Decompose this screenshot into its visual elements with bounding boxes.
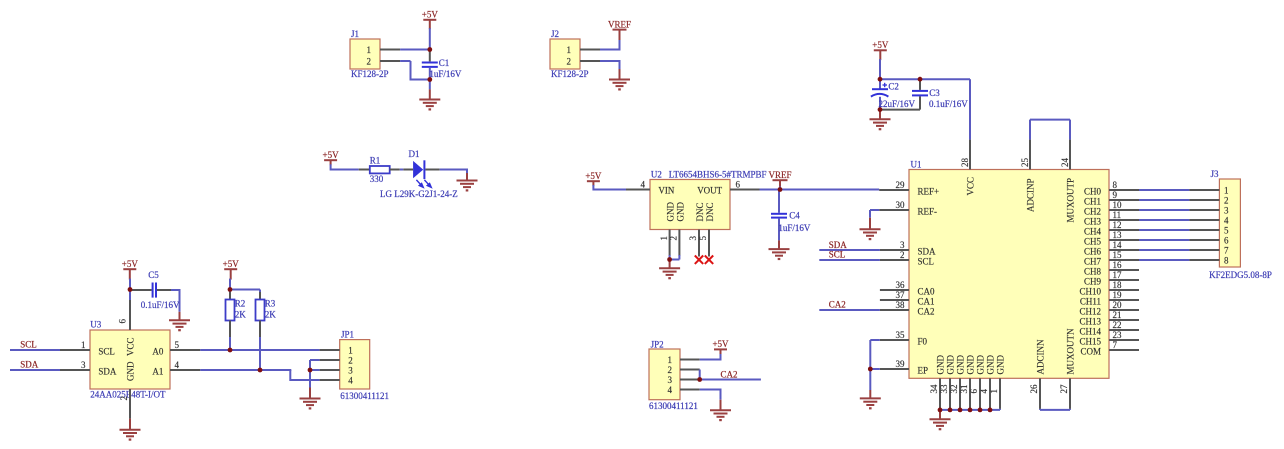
svg-text:8: 8 xyxy=(1113,180,1118,190)
wire xyxy=(779,187,781,190)
ground (D1) xyxy=(457,173,478,190)
svg-text:1: 1 xyxy=(367,45,372,55)
wire xyxy=(229,337,231,350)
svg-text:CH3: CH3 xyxy=(1084,216,1102,226)
svg-text:GND: GND xyxy=(936,355,946,375)
wire xyxy=(429,28,431,49)
wire CA2 net xyxy=(700,379,761,381)
pin 34 of U1 (GND) xyxy=(929,355,945,409)
pin 11 of U1 (CH3) xyxy=(1084,210,1139,226)
svg-text:3: 3 xyxy=(900,240,905,250)
pin 39 of U1 (EP) xyxy=(880,359,928,375)
svg-text:LG L29K-G2J1-24-Z: LG L29K-G2J1-24-Z xyxy=(380,189,458,199)
wire xyxy=(129,290,131,302)
pin 1 of J3 xyxy=(1189,189,1219,191)
wire xyxy=(1139,189,1189,191)
capacitor C2 (polarized) xyxy=(871,79,916,109)
pin 16 of U1 (CH8) xyxy=(1084,260,1139,276)
wire xyxy=(1139,219,1189,221)
node VREF junction xyxy=(778,187,783,192)
power +5V (JP2) xyxy=(712,339,729,355)
svg-text:SCL: SCL xyxy=(98,346,115,356)
svg-text:ADCINP: ADCINP xyxy=(1026,178,1036,212)
svg-text:1uF/16V: 1uF/16V xyxy=(429,69,462,79)
ground (C5) xyxy=(169,312,190,330)
wire xyxy=(230,290,260,294)
svg-text:EP: EP xyxy=(918,365,929,375)
svg-text:SDA: SDA xyxy=(918,246,937,256)
svg-text:22uF/16V: 22uF/16V xyxy=(879,99,916,109)
svg-text:34: 34 xyxy=(929,384,939,394)
wire xyxy=(593,185,626,191)
wire xyxy=(1139,209,1189,211)
node JP2 CA2 junction xyxy=(697,377,702,382)
svg-text:ADCINN: ADCINN xyxy=(1036,339,1046,374)
pin 9 of U1 (CH1) xyxy=(1084,190,1139,206)
svg-text:SDA: SDA xyxy=(829,240,848,250)
svg-text:1: 1 xyxy=(81,340,86,350)
svg-text:R3: R3 xyxy=(265,298,276,308)
wire A0 net xyxy=(200,349,319,351)
svg-text:VREF: VREF xyxy=(768,170,791,180)
svg-text:13: 13 xyxy=(1113,230,1123,240)
wire xyxy=(819,249,880,251)
IC U1 xyxy=(909,159,1109,378)
svg-text:+5V: +5V xyxy=(323,150,340,160)
power +5V (R1) xyxy=(323,150,340,165)
svg-text:2: 2 xyxy=(668,365,673,375)
svg-text:3: 3 xyxy=(81,360,86,370)
svg-text:15: 15 xyxy=(1113,250,1123,260)
node R3 bottom junction xyxy=(258,368,263,373)
svg-text:VREF: VREF xyxy=(608,19,631,29)
svg-text:CA2: CA2 xyxy=(918,306,935,316)
capacitor C4 xyxy=(771,190,811,241)
pin 1 of J1 xyxy=(380,49,400,51)
svg-text:26: 26 xyxy=(1029,384,1039,394)
node R2 bottom junction xyxy=(228,348,233,353)
LED D1 xyxy=(380,149,458,199)
svg-text:6: 6 xyxy=(1224,236,1229,246)
svg-text:CH10: CH10 xyxy=(1079,286,1101,296)
wire xyxy=(400,61,431,81)
net label SCL xyxy=(829,250,846,260)
pin 38 of U1 (CA2) xyxy=(880,300,935,316)
pin 8 of U1 (CH0) xyxy=(1084,180,1139,196)
svg-text:CA2: CA2 xyxy=(721,370,738,380)
svg-text:6: 6 xyxy=(969,389,979,394)
svg-text:2K: 2K xyxy=(235,310,247,320)
svg-text:16: 16 xyxy=(1113,260,1123,270)
pin 26 of U1 (ADCINN) xyxy=(1029,339,1045,409)
svg-text:A0: A0 xyxy=(152,346,163,356)
svg-text:4: 4 xyxy=(1224,216,1229,226)
wire xyxy=(699,370,701,380)
capacitor C1 xyxy=(422,50,462,80)
pin 4 of U3 (A1) xyxy=(170,360,200,370)
svg-text:VOUT: VOUT xyxy=(697,186,722,196)
pin 17 of U1 (CH9) xyxy=(1084,270,1139,286)
svg-text:SCL: SCL xyxy=(20,340,37,350)
pin 36 of U1 (CA0) xyxy=(880,280,935,296)
node GND bus junction xyxy=(968,408,973,413)
svg-text:61300411121: 61300411121 xyxy=(340,391,389,401)
net label SDA xyxy=(20,360,39,370)
wire xyxy=(1139,229,1189,231)
svg-text:4: 4 xyxy=(641,180,646,190)
svg-text:SDA: SDA xyxy=(20,360,39,370)
svg-text:1: 1 xyxy=(659,236,669,241)
svg-text:12: 12 xyxy=(1113,220,1122,230)
svg-text:4: 4 xyxy=(668,385,673,395)
node F0/EP junction xyxy=(868,367,873,372)
svg-text:22: 22 xyxy=(1113,320,1122,330)
svg-text:19: 19 xyxy=(1113,290,1123,300)
pin 3 of J3 xyxy=(1189,209,1219,211)
svg-text:3: 3 xyxy=(668,375,673,385)
svg-text:VCC: VCC xyxy=(966,177,976,196)
wire xyxy=(600,61,621,70)
wire xyxy=(780,189,879,191)
no-connect X on pin 3 xyxy=(695,256,703,264)
node C2 bottom junction xyxy=(878,107,883,112)
svg-text:GND: GND xyxy=(676,202,686,222)
svg-text:39: 39 xyxy=(896,359,906,369)
pin 5 of J3 xyxy=(1189,229,1219,231)
svg-text:SCL: SCL xyxy=(829,250,846,260)
connector J3 xyxy=(1209,169,1272,280)
wire xyxy=(760,189,781,191)
pin 4 of JP2 xyxy=(680,389,700,391)
pin 4 of U2 (VIN) xyxy=(626,180,650,190)
svg-text:11: 11 xyxy=(1113,210,1122,220)
svg-text:J3: J3 xyxy=(1211,169,1220,179)
power +5V (J1/C1) xyxy=(422,10,439,30)
pin 4 of JP1 xyxy=(320,379,340,381)
net label SCL xyxy=(20,340,37,350)
wire xyxy=(1139,249,1189,251)
node C2 top junction xyxy=(878,77,883,82)
power +5V (R2/R3) xyxy=(223,259,240,280)
ground (EP) xyxy=(860,390,881,408)
svg-text:+5V: +5V xyxy=(585,171,602,181)
svg-text:A1: A1 xyxy=(152,366,163,376)
svg-text:R1: R1 xyxy=(370,156,381,166)
svg-text:GND: GND xyxy=(986,355,996,375)
pin 21 of U1 (CH13) xyxy=(1079,310,1139,326)
pin 18 of U1 (CH10) xyxy=(1079,280,1139,296)
svg-text:LT6654BHS6-5#TRMPBF: LT6654BHS6-5#TRMPBF xyxy=(669,169,767,179)
pin 4 of J3 xyxy=(1189,219,1219,221)
ground (J2) xyxy=(609,69,630,89)
pin 31 of U1 (GND) xyxy=(959,355,975,409)
svg-text:+5V: +5V xyxy=(712,339,729,349)
pin 22 of U1 (CH14) xyxy=(1079,320,1139,336)
pin 3 of U3 (SDA) xyxy=(60,360,90,370)
wire xyxy=(310,360,320,388)
svg-text:U1: U1 xyxy=(911,159,922,169)
svg-text:DNC: DNC xyxy=(695,202,705,221)
pin 6 of U3 (VCC) xyxy=(118,300,131,330)
ground (REF-) xyxy=(860,218,881,239)
wire xyxy=(1139,239,1189,241)
svg-text:24: 24 xyxy=(1060,158,1070,168)
svg-text:GND: GND xyxy=(126,361,136,381)
wire xyxy=(10,349,60,351)
svg-text:3: 3 xyxy=(348,366,353,376)
wire xyxy=(429,80,431,90)
svg-text:MUXOUTP: MUXOUTP xyxy=(1066,178,1076,223)
pin 2 of U2 (GND) xyxy=(669,230,680,257)
svg-text:3: 3 xyxy=(1224,206,1229,216)
svg-text:20: 20 xyxy=(1113,300,1123,310)
node JP1 ground junction xyxy=(308,368,313,373)
svg-text:+5V: +5V xyxy=(422,10,439,20)
node J1-pin1 junction xyxy=(427,47,432,52)
pin 29 of U1 (REF+) xyxy=(879,180,939,196)
svg-text:29: 29 xyxy=(896,180,906,190)
pin 7 of U1 (COM) xyxy=(1080,340,1139,356)
pin 1 of U1 (GND) xyxy=(989,355,1005,409)
svg-text:JP1: JP1 xyxy=(341,330,354,340)
pin 3 of JP1 xyxy=(320,369,340,371)
wire xyxy=(171,290,181,312)
wire xyxy=(819,309,880,311)
pin 2 of J2 xyxy=(580,60,600,62)
svg-text:DNC: DNC xyxy=(705,202,715,221)
wire xyxy=(400,169,404,171)
svg-text:14: 14 xyxy=(1113,240,1123,250)
svg-text:F0: F0 xyxy=(918,336,928,346)
pin 6 of U1 (GND) xyxy=(969,355,985,409)
svg-text:2: 2 xyxy=(1224,196,1229,206)
svg-text:MUXOUTN: MUXOUTN xyxy=(1066,328,1076,374)
ground (JP1) xyxy=(300,388,321,409)
svg-text:1: 1 xyxy=(567,45,572,55)
svg-text:28: 28 xyxy=(960,158,970,168)
pin 35 of U1 (F0) xyxy=(880,330,928,346)
svg-text:C1: C1 xyxy=(439,58,450,68)
pin 20 of U1 (CH12) xyxy=(1079,300,1139,316)
ground (U3) xyxy=(120,419,141,440)
power VREF (U2 output) xyxy=(768,170,791,187)
power +5V (U3) xyxy=(122,259,139,280)
wire xyxy=(700,354,722,360)
svg-text:5: 5 xyxy=(1224,226,1229,236)
svg-text:1uF/16V: 1uF/16V xyxy=(778,223,811,233)
pin 2 of J3 xyxy=(1189,199,1219,201)
wire xyxy=(700,390,722,400)
power +5V (U1) xyxy=(872,40,889,60)
svg-text:CH6: CH6 xyxy=(1084,246,1102,256)
wire GND bus xyxy=(940,409,1000,410)
node U2 GND junction xyxy=(667,257,672,262)
wire xyxy=(129,279,131,290)
svg-text:2: 2 xyxy=(669,236,679,241)
wire A1 net xyxy=(200,370,319,381)
pin 6 of J3 xyxy=(1189,239,1219,241)
connector JP2 xyxy=(649,339,698,411)
svg-text:23: 23 xyxy=(1113,330,1123,340)
ground (C2/C3) xyxy=(870,110,891,130)
node C3 top junction xyxy=(918,77,923,82)
svg-text:2: 2 xyxy=(567,56,572,66)
wire xyxy=(259,337,261,370)
pin 33 of U1 (GND) xyxy=(939,355,955,409)
svg-text:1: 1 xyxy=(1224,186,1229,196)
IC U2 xyxy=(650,169,767,229)
svg-text:+5V: +5V xyxy=(223,259,240,269)
svg-text:C5: C5 xyxy=(148,270,159,280)
svg-text:REF-: REF- xyxy=(918,206,938,216)
node GND bus junction xyxy=(978,408,983,413)
svg-text:GND: GND xyxy=(956,355,966,375)
wire xyxy=(819,259,880,261)
svg-text:38: 38 xyxy=(896,300,906,310)
svg-text:33: 33 xyxy=(939,384,949,394)
svg-text:27: 27 xyxy=(1059,384,1069,394)
ground (U2) xyxy=(659,260,680,279)
svg-text:18: 18 xyxy=(1113,280,1123,290)
svg-text:61300411121: 61300411121 xyxy=(649,401,698,411)
pin 3 of U2 (DNC) xyxy=(688,230,699,257)
power VREF (J2) xyxy=(608,19,631,40)
wire xyxy=(400,49,431,51)
pin 32 of U1 (GND) xyxy=(949,355,965,409)
pin 27 of U1 (MUXOUTN) xyxy=(1059,328,1075,409)
ground (JP2) xyxy=(710,400,731,420)
pin 7 of J3 xyxy=(1189,249,1219,251)
svg-text:8: 8 xyxy=(1224,256,1229,266)
pin 23 of U1 (CH15) xyxy=(1079,330,1139,346)
svg-text:0.1uF/16V: 0.1uF/16V xyxy=(929,99,968,109)
svg-text:CH0: CH0 xyxy=(1084,186,1102,196)
svg-text:CH11: CH11 xyxy=(1080,296,1101,306)
wire xyxy=(331,164,359,170)
wire xyxy=(670,255,680,260)
pin 5 of U3 (A0) xyxy=(170,340,200,350)
svg-text:37: 37 xyxy=(896,290,906,300)
svg-text:U3: U3 xyxy=(90,319,101,329)
svg-text:KF128-2P: KF128-2P xyxy=(351,69,389,79)
node GND bus junction xyxy=(938,408,943,413)
net label CA2 xyxy=(721,370,738,380)
svg-text:2: 2 xyxy=(900,250,905,260)
wire xyxy=(1139,199,1189,201)
pin 1 of U3 (SCL) xyxy=(60,340,90,350)
node GND bus junction xyxy=(948,408,953,413)
capacitor C5 xyxy=(132,270,180,310)
svg-text:5: 5 xyxy=(175,340,180,350)
pin 25 of U1 (ADCINP) xyxy=(1020,140,1036,212)
svg-text:J2: J2 xyxy=(551,29,559,39)
svg-text:2: 2 xyxy=(119,396,129,401)
pin 6 of U2 (VOUT) xyxy=(730,180,760,190)
pin 30 of U1 (REF-) xyxy=(879,200,937,216)
pin 1 of J2 xyxy=(580,49,600,51)
svg-text:31: 31 xyxy=(959,385,969,394)
resistor R2 xyxy=(226,292,247,337)
power +5V (U2) xyxy=(585,171,602,186)
svg-text:SDA: SDA xyxy=(98,366,117,376)
pin 4 of U1 (GND) xyxy=(979,355,995,409)
svg-text:5: 5 xyxy=(698,236,708,241)
svg-text:C4: C4 xyxy=(789,210,800,220)
pin 10 of U1 (CH2) xyxy=(1084,200,1139,216)
svg-text:4: 4 xyxy=(175,360,180,370)
svg-text:VCC: VCC xyxy=(126,337,136,356)
svg-text:32: 32 xyxy=(949,385,959,394)
svg-text:J1: J1 xyxy=(351,29,359,39)
pin 37 of U1 (CA1) xyxy=(880,290,935,306)
pin 2 of JP1 xyxy=(320,359,340,361)
wire xyxy=(229,279,231,290)
svg-text:2: 2 xyxy=(367,56,372,66)
svg-text:0.1uF/16V: 0.1uF/16V xyxy=(141,300,180,310)
pin 1 of JP2 xyxy=(680,359,700,361)
wire xyxy=(600,40,621,51)
svg-text:KF2EDG5.08-8P: KF2EDG5.08-8P xyxy=(1209,270,1272,280)
net label SDA xyxy=(829,240,848,250)
pin 28 of U1 (VCC) xyxy=(960,140,976,196)
svg-text:7: 7 xyxy=(1224,246,1229,256)
svg-text:JP2: JP2 xyxy=(651,339,664,349)
svg-text:+5V: +5V xyxy=(872,40,889,50)
svg-text:CH8: CH8 xyxy=(1084,266,1102,276)
svg-text:VIN: VIN xyxy=(658,186,674,196)
svg-text:GND: GND xyxy=(996,355,1006,375)
svg-text:CH13: CH13 xyxy=(1079,316,1101,326)
svg-text:1: 1 xyxy=(668,355,673,365)
svg-text:7: 7 xyxy=(1113,340,1118,350)
svg-text:17: 17 xyxy=(1113,270,1123,280)
wire xyxy=(1139,259,1189,261)
resistor R3 xyxy=(256,292,277,337)
svg-text:KF128-2P: KF128-2P xyxy=(551,69,589,79)
svg-text:330: 330 xyxy=(370,174,384,184)
svg-text:36: 36 xyxy=(896,280,906,290)
svg-text:CA2: CA2 xyxy=(829,300,846,310)
node U3 VCC junction xyxy=(128,287,133,292)
pin 2 of JP2 xyxy=(680,369,700,371)
svg-text:+5V: +5V xyxy=(122,259,139,269)
IC U3 xyxy=(90,319,170,399)
svg-text:30: 30 xyxy=(896,200,906,210)
svg-text:CH7: CH7 xyxy=(1084,256,1102,266)
svg-text:GND: GND xyxy=(976,355,986,375)
svg-text:CH15: CH15 xyxy=(1079,336,1101,346)
svg-text:4: 4 xyxy=(348,376,353,386)
svg-text:21: 21 xyxy=(1113,310,1122,320)
connector JP1 xyxy=(340,330,389,401)
svg-text:35: 35 xyxy=(896,330,906,340)
connector J2 xyxy=(550,29,589,79)
node GND bus junction xyxy=(958,408,963,413)
svg-text:2: 2 xyxy=(348,356,353,366)
svg-text:2K: 2K xyxy=(265,310,277,320)
svg-text:GND: GND xyxy=(966,355,976,375)
wire xyxy=(880,59,970,140)
resistor R1 xyxy=(359,156,400,184)
svg-text:3: 3 xyxy=(688,236,698,241)
pin 15 of U1 (CH7) xyxy=(1084,250,1139,266)
node R2 top junction xyxy=(228,287,233,292)
svg-text:COM: COM xyxy=(1080,346,1101,356)
svg-text:25: 25 xyxy=(1020,158,1030,168)
svg-text:9: 9 xyxy=(1113,190,1118,200)
pin 2 of U3 (GND) xyxy=(119,389,130,419)
pin 5 of U2 (DNC) xyxy=(698,230,709,257)
